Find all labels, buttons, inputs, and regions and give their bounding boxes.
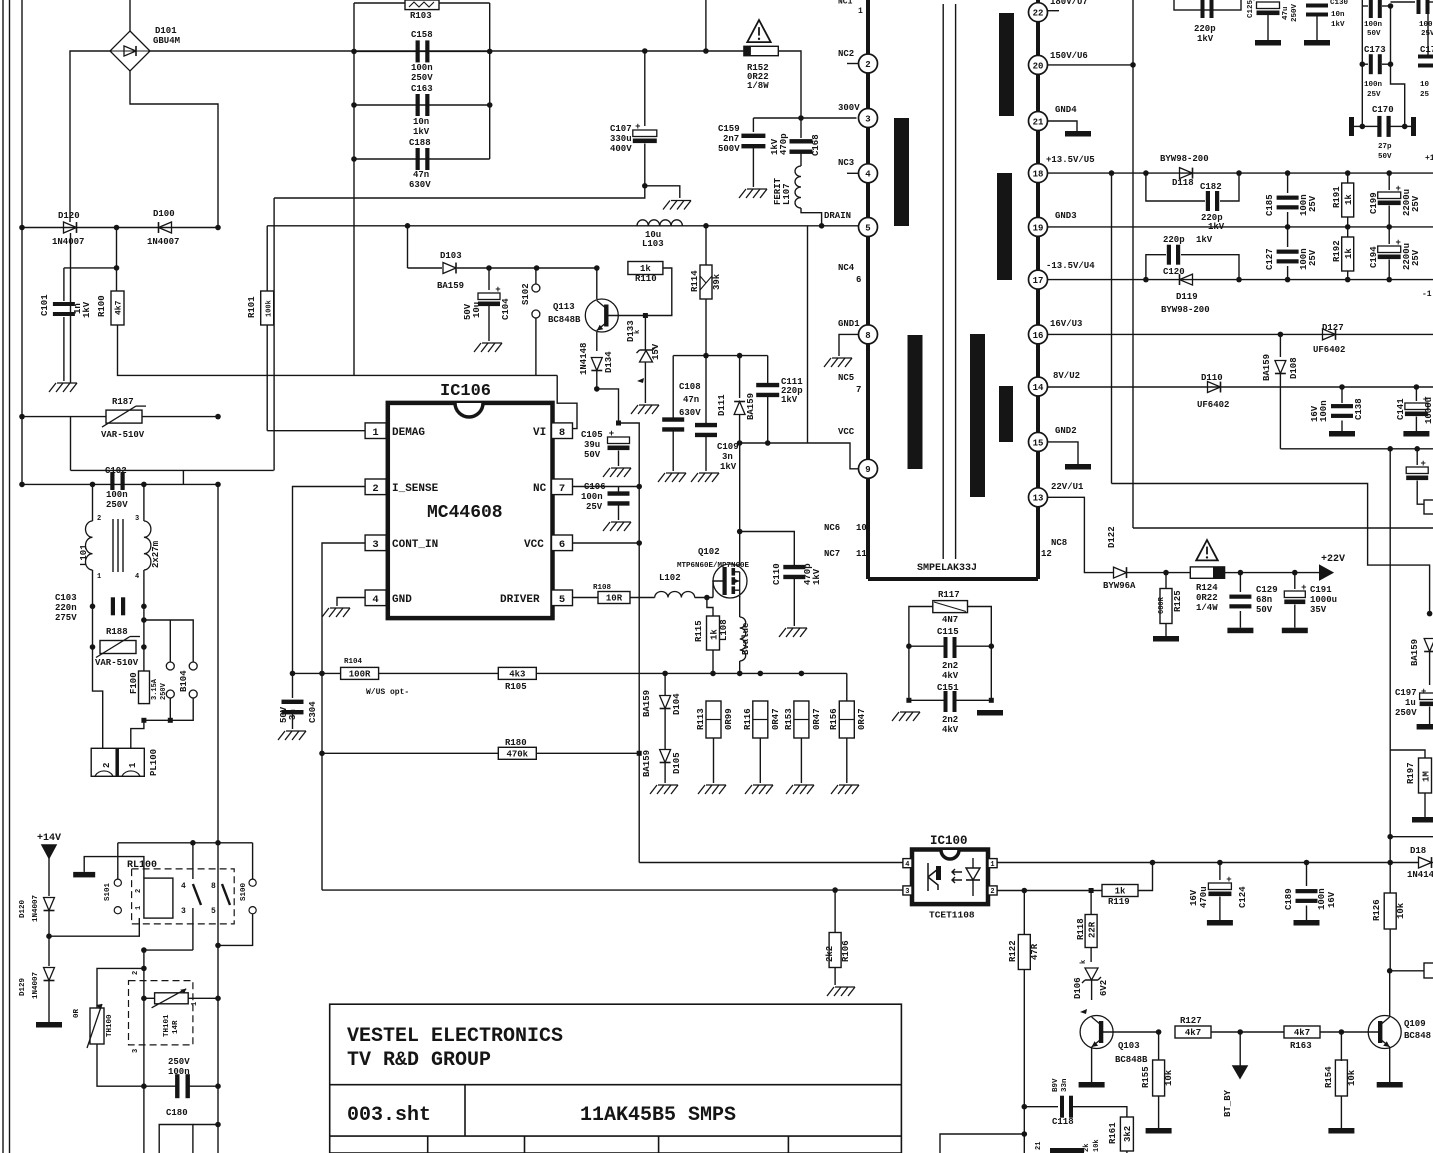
warning triangle R124 — [1196, 540, 1218, 560]
svg-text:VESTEL ELECTRONICS: VESTEL ELECTRONICS — [347, 1025, 563, 1048]
svg-text:C106: C106 — [584, 482, 606, 492]
svg-text:10: 10 — [1420, 81, 1430, 89]
IC106 pin 1 box — [365, 423, 386, 439]
svg-text:D111: D111 — [717, 394, 727, 416]
svg-text:D118: D118 — [1172, 178, 1194, 188]
svg-text:R161: R161 — [1108, 1122, 1118, 1144]
8V rail — [1048, 386, 1433, 388]
svg-text:18: 18 — [1033, 170, 1044, 180]
svg-text:2: 2 — [97, 515, 101, 523]
svg-text:R114: R114 — [690, 270, 700, 292]
IC106 pin 5 box — [552, 590, 573, 606]
svg-text:S100: S100 — [240, 882, 248, 901]
svg-text:GND1: GND1 — [838, 319, 860, 329]
secondary ground at R155 — [1146, 1128, 1172, 1134]
svg-text:4k3: 4k3 — [509, 670, 525, 680]
transformer core line right — [955, 4, 957, 559]
capacitor C129 68n 50V — [1239, 573, 1241, 592]
fusible resistor R152 0R22 1/8W — [744, 46, 778, 55]
long vertical x219 to relay — [217, 484, 219, 1153]
svg-text:0R47: 0R47 — [812, 708, 822, 730]
resistor R118 22R — [1090, 891, 1092, 916]
secondary winding bar pins 18-17 — [997, 173, 1012, 280]
primary ground at R156 — [831, 785, 838, 794]
22V wire — [1048, 497, 1115, 572]
svg-text:11AK45B5 SMPS: 11AK45B5 SMPS — [580, 1104, 736, 1127]
junction L108 bottom — [737, 671, 743, 677]
svg-text:GND2: GND2 — [1055, 426, 1077, 436]
svg-text:17: 17 — [1033, 276, 1044, 286]
IC106 body MC44608 — [388, 403, 553, 618]
svg-text:10k: 10k — [1396, 902, 1406, 919]
svg-text:D119: D119 — [1176, 292, 1198, 302]
svg-text:D101: D101 — [155, 26, 177, 36]
IC106 pin 2 box — [365, 479, 386, 495]
IC100 led arrows — [952, 869, 962, 883]
svg-text:003.sht: 003.sht — [347, 1104, 431, 1127]
capacitor C173 100n 25V — [1362, 63, 1368, 65]
svg-text:2: 2 — [865, 60, 870, 70]
svg-text:100n: 100n — [411, 63, 433, 73]
svg-text:R191: R191 — [1332, 186, 1342, 208]
primary ground left of network — [892, 712, 899, 721]
demag sense wire from C107 node — [274, 186, 645, 198]
svg-text:BA159: BA159 — [642, 690, 652, 717]
svg-text:C138: C138 — [1354, 398, 1364, 420]
capacitor C111 220p 1kV — [767, 356, 769, 384]
svg-text:250V: 250V — [106, 500, 128, 510]
svg-text:2: 2 — [135, 889, 143, 893]
svg-text:50V: 50V — [584, 450, 601, 460]
svg-text:10k: 10k — [1164, 1069, 1174, 1086]
svg-text:BYW98-200: BYW98-200 — [1161, 305, 1210, 315]
wire zener to Q103 collector — [1091, 980, 1093, 1000]
resistor R161 3k2 — [1073, 1107, 1127, 1117]
varistor R188 VAR-510V — [100, 641, 136, 654]
svg-text:25V: 25V — [1421, 30, 1433, 38]
wire D133 to ground — [644, 362, 646, 403]
svg-text:7: 7 — [856, 385, 861, 395]
secondary ground at R197 — [1412, 817, 1433, 823]
IC100 phototransistor — [928, 863, 938, 891]
svg-text:4k7: 4k7 — [1294, 1028, 1310, 1038]
svg-text:25V: 25V — [586, 502, 603, 512]
wire TH100 bottom to C180 rail — [97, 1044, 144, 1086]
resistor R125 680R — [1165, 573, 1167, 589]
resistor R154 10k — [1335, 1060, 1347, 1096]
sheet border left inner line — [9, 0, 11, 1153]
vertical at C173 column — [1361, 0, 1363, 126]
svg-text:6V2: 6V2 — [1099, 980, 1109, 996]
IC106 pin3 wire to feedback vertical — [322, 543, 365, 890]
svg-text:100n: 100n — [1419, 21, 1433, 29]
wire Q103 base right — [1101, 1031, 1159, 1033]
left stack vertical — [353, 3, 355, 375]
svg-text:8: 8 — [865, 331, 870, 341]
transformer bottom bar — [868, 577, 1038, 581]
primary ground at C109 — [691, 473, 698, 482]
TH101 dashed box — [129, 981, 193, 1045]
sense resistor R153 0R47 — [794, 701, 809, 738]
16V rail — [1048, 333, 1433, 335]
capacitor C102 100n 250V — [110, 472, 114, 490]
transformer pin 14 8V/U2 — [1029, 377, 1048, 396]
junction -13.5 C120 branch — [1143, 277, 1149, 283]
svg-text:D127: D127 — [1322, 323, 1344, 333]
+13.5V rail — [1048, 172, 1433, 174]
svg-text:NC4: NC4 — [838, 263, 855, 273]
svg-text:R197: R197 — [1406, 762, 1416, 784]
svg-text:1kV: 1kV — [781, 395, 798, 405]
svg-text:0R47: 0R47 — [857, 708, 867, 730]
capacitor C189 100n 16V — [1306, 863, 1308, 887]
secondary sense rail from IC100 pin1 — [997, 862, 1419, 864]
secondary ground at C141 — [1403, 431, 1429, 437]
svg-text:4kV: 4kV — [942, 725, 959, 735]
svg-text:3: 3 — [135, 515, 139, 523]
150V sense wire y528 — [1133, 527, 1433, 529]
secondary ground at Q103 — [1079, 1082, 1105, 1088]
svg-text:100n: 100n — [1364, 21, 1383, 29]
svg-text:NC8: NC8 — [1051, 538, 1067, 548]
wire node to VCC vertical — [619, 423, 640, 484]
svg-text:C141: C141 — [1396, 398, 1406, 420]
svg-text:C108: C108 — [679, 382, 701, 392]
connector B104 right posts — [189, 662, 197, 670]
svg-text:NC3: NC3 — [838, 158, 854, 168]
secondary ground at C189 — [1294, 920, 1320, 926]
wire L101-1 down — [92, 570, 94, 606]
wire S102 to VI rail — [535, 318, 537, 375]
capacitor C115 2n2 4kV — [909, 645, 944, 647]
transformer pin 20 150V/U6 — [1029, 55, 1048, 74]
transistor Q109 BC848B — [1341, 1031, 1382, 1033]
svg-text:1k: 1k — [1344, 248, 1354, 259]
svg-text:3: 3 — [132, 1049, 140, 1053]
svg-text:R126: R126 — [1372, 899, 1382, 921]
svg-text:4N7: 4N7 — [942, 615, 958, 625]
svg-text:UF6402: UF6402 — [1197, 400, 1229, 410]
svg-text:1/4W: 1/4W — [1196, 603, 1218, 613]
IC100 pin4 box — [903, 859, 912, 868]
transistor Q103 BC848B — [1080, 1016, 1113, 1049]
relay top rail — [117, 843, 119, 879]
svg-text:BYW96A: BYW96A — [1103, 581, 1136, 591]
source wire to L108 — [739, 596, 741, 617]
drain wire up to snubber rail — [739, 443, 741, 566]
svg-text:D105: D105 — [672, 752, 682, 774]
diode D100 1N4007 — [159, 222, 172, 233]
svg-text:-1: -1 — [1422, 290, 1432, 299]
feedback sense wire y483 to right edge network — [1112, 484, 1430, 614]
svg-text:1: 1 — [97, 573, 101, 581]
primary ground at D105 — [650, 785, 657, 794]
svg-text:SMPELAK33J: SMPELAK33J — [917, 563, 977, 574]
svg-text:10n: 10n — [413, 117, 429, 127]
svg-text:CONT_IN: CONT_IN — [392, 539, 438, 551]
title block divider 1 — [330, 1084, 902, 1086]
junction B104 top — [141, 617, 147, 623]
GND3 rail — [1048, 226, 1433, 228]
resistor R105 4k3 — [498, 667, 536, 679]
svg-text:3: 3 — [181, 907, 186, 916]
diode D128 1N4007 — [44, 898, 55, 911]
secondary ground bar at D129 — [36, 1022, 62, 1028]
resistor R110 1k — [628, 262, 663, 275]
svg-text:D18: D18 — [1410, 846, 1426, 856]
svg-text:BC848B: BC848B — [1115, 1055, 1148, 1065]
svg-text:R153: R153 — [784, 708, 794, 730]
svg-text:L102: L102 — [659, 573, 681, 583]
svg-text:TH100: TH100 — [106, 1014, 114, 1037]
secondary winding bar pins 16-13 — [970, 334, 985, 497]
svg-text:+: + — [1395, 184, 1400, 194]
transformer pin 17 -13.5V/U4 — [1029, 270, 1048, 289]
wire VI drop to IC106 pin 8 — [557, 375, 577, 428]
svg-text:k: k — [634, 330, 642, 334]
svg-text:C130: C130 — [1330, 0, 1349, 7]
svg-text:L108: L108 — [719, 619, 729, 641]
junction fuse bottom — [141, 718, 146, 723]
primary ground at C107 — [663, 201, 670, 210]
wire top rail with R103 — [354, 2, 490, 4]
junction C141 — [1414, 384, 1420, 390]
title bottom row dividers — [427, 1136, 429, 1153]
svg-text:BA159: BA159 — [642, 750, 652, 777]
IC106 pin 4 box — [365, 590, 386, 606]
wire gate jog — [713, 581, 723, 598]
svg-text:R188: R188 — [106, 627, 128, 637]
svg-text:+1: +1 — [1425, 154, 1433, 163]
svg-text:R118: R118 — [1076, 918, 1086, 940]
transformer pin 18 +13.5V/U5 — [1029, 164, 1048, 183]
svg-text:+13.5V/U5: +13.5V/U5 — [1046, 155, 1095, 165]
svg-text:+: + — [495, 285, 500, 295]
capacitor C172 100n 50V — [1362, 5, 1368, 7]
svg-text:100n: 100n — [1364, 81, 1383, 89]
svg-text:33n: 33n — [1061, 1078, 1069, 1092]
IC106 pin5 DRIVER wire — [573, 597, 601, 599]
feedback wire to IC100 pin3 — [322, 889, 903, 891]
resistor R192 1k — [1345, 277, 1351, 283]
wire D108 down to sync line — [1279, 374, 1281, 449]
capacitor C101 1n 1kV — [53, 302, 75, 306]
svg-text:D104: D104 — [672, 693, 682, 715]
wire C101 to ground — [63, 317, 65, 381]
svg-text:R110: R110 — [635, 274, 657, 284]
svg-text:C180: C180 — [166, 1108, 188, 1118]
junction D133 branch on base wire — [643, 313, 648, 318]
svg-text:47u: 47u — [1282, 6, 1290, 20]
svg-text:20: 20 — [1033, 61, 1044, 71]
svg-text:BA159: BA159 — [1262, 354, 1272, 381]
svg-text:C173: C173 — [1364, 45, 1386, 55]
wire coil node to relay — [49, 918, 139, 936]
capacitor C170 27p 50V — [1349, 117, 1354, 136]
transformer pin 4 NC3 — [859, 164, 878, 183]
vertical line x706 from top edge — [705, 0, 707, 51]
resistor R106 2k2 — [834, 890, 836, 934]
svg-text:250V: 250V — [168, 1057, 190, 1067]
svg-text:3n: 3n — [722, 452, 733, 462]
svg-text:L103: L103 — [642, 239, 664, 249]
svg-text:6: 6 — [559, 539, 565, 551]
transformer core line left — [942, 4, 944, 559]
primary ground GND1 — [824, 358, 831, 367]
svg-text:C199: C199 — [1369, 192, 1379, 214]
svg-text:5: 5 — [559, 594, 565, 606]
primary ground at R106 — [827, 987, 834, 996]
svg-text:3: 3 — [905, 888, 909, 896]
junction left vertical at AC rail — [19, 225, 25, 231]
svg-text:1k: 1k — [1115, 887, 1126, 897]
svg-text:R125: R125 — [1173, 590, 1183, 612]
wire 150V to junction — [1048, 64, 1134, 66]
wire R190 down then sense rail to filter stack — [118, 325, 536, 375]
cut ground bar bottom edge — [1050, 1148, 1084, 1153]
svg-text:470p: 470p — [779, 133, 789, 155]
junction C199 — [1386, 170, 1392, 176]
svg-text:BA159: BA159 — [437, 281, 464, 291]
svg-text:1N4007: 1N4007 — [52, 237, 84, 247]
svg-text:GND4: GND4 — [1055, 105, 1077, 115]
svg-text:0R22: 0R22 — [1196, 593, 1218, 603]
svg-text:B9V: B9V — [1052, 1078, 1060, 1092]
svg-text:C189: C189 — [1284, 888, 1294, 910]
svg-text:+: + — [1226, 875, 1231, 885]
I-sense rail — [293, 672, 847, 674]
svg-text:D120: D120 — [58, 211, 80, 221]
svg-text:C102: C102 — [105, 466, 127, 476]
svg-text:47n: 47n — [413, 170, 429, 180]
svg-text:R106: R106 — [841, 940, 851, 962]
svg-text:1kV: 1kV — [413, 127, 430, 137]
svg-text:+: + — [1395, 238, 1400, 248]
svg-text:R108: R108 — [593, 584, 612, 592]
relay coil top wire to ground bar — [84, 857, 144, 879]
svg-text:R103: R103 — [410, 11, 432, 21]
jumper S102 — [535, 268, 537, 284]
line filter L101 2x27m left winding — [92, 484, 94, 521]
primary ground at IC106 GND — [322, 608, 329, 617]
junction drain rail / D103 branch — [405, 223, 411, 229]
svg-text:VCC: VCC — [524, 539, 544, 551]
sense resistor R116 0R47 — [753, 701, 768, 738]
svg-text:1kV: 1kV — [812, 568, 822, 585]
transformer pin 8 GND1 — [859, 325, 878, 344]
svg-text:25V: 25V — [1308, 195, 1318, 212]
svg-text:R104: R104 — [344, 658, 363, 666]
svg-text:R155: R155 — [1141, 1066, 1151, 1088]
svg-text:330u: 330u — [610, 134, 632, 144]
svg-text:DRIVER: DRIVER — [500, 594, 540, 606]
junction C185 — [1285, 170, 1291, 176]
svg-text:R187: R187 — [112, 397, 134, 407]
svg-text:2n7: 2n7 — [723, 134, 739, 144]
svg-text:BA159: BA159 — [746, 393, 756, 420]
svg-text:IC100: IC100 — [930, 834, 968, 848]
svg-text:D122: D122 — [1107, 526, 1117, 548]
svg-text:C159: C159 — [718, 124, 740, 134]
snubber top rail — [673, 355, 768, 357]
svg-text:25V: 25V — [1411, 195, 1421, 212]
title block divider 2 — [330, 1135, 902, 1137]
svg-text:1k: 1k — [1344, 194, 1354, 205]
primary aux winding bar pins 8-9 — [908, 335, 923, 469]
svg-text:10k: 10k — [1347, 1069, 1357, 1086]
svg-text:R115: R115 — [694, 620, 704, 642]
junction C103 right — [141, 604, 147, 610]
secondary ground at R125 — [1153, 636, 1179, 642]
svg-text:C103: C103 — [55, 593, 77, 603]
junction x22 at C102 rail — [19, 482, 25, 488]
wire L102 to gate — [695, 597, 713, 599]
svg-text:1: 1 — [135, 906, 143, 910]
inductor L108 Bvalue — [740, 617, 746, 661]
capacitor C194 2200u 25V — [1386, 277, 1392, 283]
wire C173 to C170 row — [1391, 64, 1405, 126]
svg-text:1kV: 1kV — [1197, 34, 1214, 44]
svg-text:16V: 16V — [1327, 891, 1337, 908]
svg-text:35V: 35V — [1310, 605, 1327, 615]
capacitor C108 47n 630V — [672, 356, 674, 419]
svg-text:C194: C194 — [1369, 246, 1379, 268]
resistor R117 4N7 — [933, 601, 968, 613]
wire S100 bottom to x219 — [218, 914, 253, 945]
IC106 pin1 wire — [267, 430, 365, 432]
svg-text:220n: 220n — [55, 603, 77, 613]
svg-text:1000u: 1000u — [1424, 397, 1433, 424]
svg-text:1kV: 1kV — [82, 301, 92, 318]
svg-text:2x27m: 2x27m — [151, 540, 161, 568]
connector B104 left posts — [169, 620, 171, 662]
inductor L103 10u — [637, 220, 682, 226]
svg-text:12: 12 — [1041, 549, 1052, 559]
wire C101 branch down — [63, 268, 65, 301]
wire R124 to C129 — [1225, 572, 1241, 574]
svg-text:IC106: IC106 — [440, 382, 491, 401]
svg-text:1N4148: 1N4148 — [579, 343, 589, 375]
svg-text:NC2: NC2 — [838, 49, 854, 59]
svg-text:1kV: 1kV — [720, 462, 737, 472]
title block outer box — [330, 1004, 902, 1153]
svg-text:Q109: Q109 — [1404, 1019, 1426, 1029]
svg-text:10k: 10k — [1093, 1139, 1101, 1152]
svg-text:R122: R122 — [1008, 940, 1018, 962]
junction C103 left — [90, 604, 96, 610]
wire VCC to IC100 pin4 — [639, 862, 903, 864]
svg-text:4k7: 4k7 — [115, 300, 124, 315]
primary ground at C106 — [603, 522, 610, 531]
svg-text:C115: C115 — [937, 627, 959, 637]
S100 posts — [252, 843, 254, 879]
svg-text:25V: 25V — [1308, 249, 1318, 266]
svg-text:S101: S101 — [104, 882, 112, 901]
svg-text:3.15A: 3.15A — [151, 678, 159, 700]
junction at bridge-bottom vertical — [215, 225, 221, 231]
svg-text:1: 1 — [858, 7, 863, 16]
svg-text:22: 22 — [1033, 9, 1044, 19]
bridge rectifier D101 GBU4M diamond — [110, 31, 150, 71]
IC100 pin3 box — [903, 886, 912, 895]
-13.5V rail — [1048, 279, 1433, 281]
svg-text:4k7: 4k7 — [1185, 1028, 1201, 1038]
IC106 pin 6 box — [552, 535, 573, 551]
svg-text:21: 21 — [1035, 1142, 1043, 1150]
svg-text:1M: 1M — [1422, 771, 1432, 782]
capacitor C191 1000u 35V — [1294, 573, 1296, 589]
svg-text:14: 14 — [1033, 383, 1044, 393]
